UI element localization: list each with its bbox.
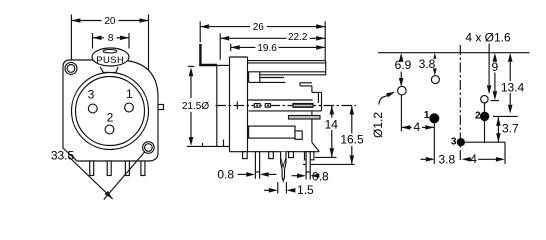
hole A (1.2mm)	[398, 86, 407, 95]
pin 3	[88, 104, 97, 113]
dim 4 left	[401, 126, 411, 128]
gray bar (PCB)	[289, 116, 321, 120]
svg-text:14: 14	[325, 117, 339, 131]
right notch	[300, 82, 312, 84]
svg-text:22.2: 22.2	[288, 32, 308, 43]
svg-text:1.5: 1.5	[297, 183, 314, 197]
dim 3.7	[497, 117, 499, 142]
bottom chamfer	[312, 143, 319, 152]
key notch tab	[100, 67, 118, 73]
svg-text:8: 8	[108, 33, 114, 44]
svg-text:1: 1	[126, 87, 133, 101]
body bottom edge	[230, 151, 320, 153]
flange outline	[63, 60, 158, 161]
svg-text:2: 2	[107, 111, 114, 125]
svg-text:3: 3	[88, 88, 95, 102]
svg-text:0.8: 0.8	[312, 170, 329, 184]
dim 14	[331, 106, 333, 118]
leader to hole C	[488, 44, 490, 86]
PUSH slot	[103, 50, 117, 53]
svg-text:3.8: 3.8	[438, 152, 455, 166]
hole C	[481, 96, 488, 103]
knurled insert	[293, 104, 313, 108]
rear wall	[230, 56, 248, 58]
interior top line	[248, 99, 313, 101]
svg-text:4: 4	[470, 152, 477, 166]
svg-text:2: 2	[475, 110, 481, 121]
svg-text:Ø1.2: Ø1.2	[371, 112, 385, 138]
pin 2 reference line	[493, 115, 518, 117]
dimension 20	[71, 20, 101, 22]
dim 22.2 extension line	[219, 34, 221, 60]
barrel inner circle	[76, 77, 145, 146]
svg-text:13.4: 13.4	[501, 80, 525, 94]
body right edge	[311, 111, 313, 143]
hole B	[431, 76, 439, 84]
dim 26 extension lines	[199, 21, 201, 42]
contact squares on centerline	[254, 104, 260, 108]
pin inner taper	[281, 159, 286, 168]
dimension 26	[200, 26, 250, 28]
dimension 20 extension lines	[70, 15, 72, 60]
panel bracket (thick)	[200, 44, 217, 65]
dimension 8 extension lines	[92, 33, 94, 49]
right bar	[321, 92, 323, 111]
pin 1 pad	[430, 114, 439, 123]
svg-text:9: 9	[491, 60, 498, 74]
dim 13.4	[508, 53, 513, 62]
PUSH button ellipse	[92, 48, 129, 66]
center cross tick	[236, 101, 238, 109]
front view solder legs	[90, 161, 94, 176]
dimension 22.2	[220, 37, 286, 39]
top bar	[248, 60, 326, 62]
dim 21.5 diameter	[190, 75, 192, 98]
svg-text:3: 3	[451, 137, 457, 148]
svg-text:6.9: 6.9	[395, 58, 412, 72]
pin 2	[105, 125, 114, 134]
pin3 level line	[465, 141, 506, 143]
left leg	[255, 152, 259, 172]
svg-text:20: 20	[104, 16, 116, 27]
dim 0.8 right	[292, 175, 302, 177]
leader for 1.2	[379, 94, 391, 105]
svg-text:4 x Ø1.6: 4 x Ø1.6	[465, 30, 511, 44]
svg-text:1: 1	[424, 110, 430, 121]
svg-text:19.6: 19.6	[257, 43, 277, 54]
dimension 8	[93, 37, 105, 39]
pin 1	[125, 103, 134, 112]
dim 3.8 top	[433, 53, 438, 62]
interior rect	[249, 126, 295, 138]
pointed middle pin	[281, 152, 286, 181]
svg-text:26: 26	[253, 22, 265, 33]
svg-text:PUSH: PUSH	[96, 55, 124, 66]
mounting hole top-left	[65, 62, 77, 74]
svg-text:4: 4	[413, 120, 420, 134]
latch tab right	[158, 105, 164, 110]
pcb edge line	[378, 52, 530, 54]
svg-text:33.5: 33.5	[51, 148, 75, 162]
dim 0.8 left	[238, 173, 252, 175]
front bezel edge	[216, 65, 218, 146]
svg-text:21.5Ø: 21.5Ø	[182, 101, 209, 112]
svg-text:3.8: 3.8	[419, 57, 436, 71]
dimension 19.6	[231, 46, 256, 48]
centerline	[216, 105, 357, 107]
right leg	[306, 152, 310, 172]
dim 19.6 tick	[230, 44, 232, 52]
connecting verticals	[484, 103, 486, 143]
solder leg stubs	[243, 152, 248, 159]
dim 16.5	[351, 106, 353, 134]
svg-text:16.5: 16.5	[340, 133, 364, 147]
pin 3 pad	[457, 139, 464, 146]
sub-block	[248, 72, 250, 83]
bezel bottom tab	[187, 145, 230, 147]
svg-text:0.8: 0.8	[217, 168, 234, 182]
svg-text:3.7: 3.7	[502, 122, 519, 136]
bracket arm	[217, 64, 230, 66]
dim 6.9	[399, 53, 404, 62]
dim 1.5	[264, 189, 274, 191]
body interior line	[249, 110, 322, 112]
dim 9	[493, 53, 498, 62]
pin 2 pad	[480, 112, 488, 120]
bottom dims 3.8 and 4	[421, 158, 431, 160]
mounting hole bottom-right	[143, 142, 155, 154]
vertical centerline	[459, 45, 461, 162]
barrel outer circle	[72, 73, 149, 150]
